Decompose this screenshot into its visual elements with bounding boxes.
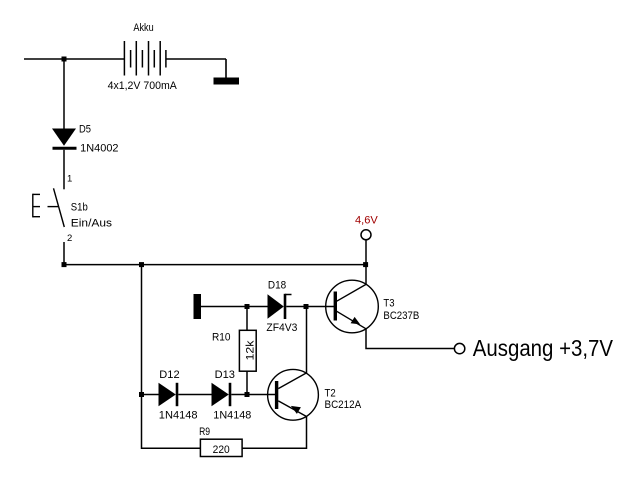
label R10 bbox=[212, 332, 231, 344]
label Akku bbox=[133, 22, 153, 34]
svg-text:T2: T2 bbox=[325, 387, 336, 399]
node 4,6V terminal bbox=[355, 215, 379, 240]
svg-text:T3: T3 bbox=[383, 298, 394, 310]
svg-text:4x1,2V 700mA: 4x1,2V 700mA bbox=[108, 80, 178, 92]
svg-text:D18: D18 bbox=[268, 280, 286, 292]
wire left junction to D12 bbox=[142, 394, 159, 396]
svg-text:1N4148: 1N4148 bbox=[213, 410, 251, 422]
diode D12 bbox=[159, 383, 178, 406]
wire battery to ground bbox=[166, 58, 226, 60]
wire top-left stub to battery bbox=[24, 58, 124, 60]
label R9 bbox=[199, 426, 210, 438]
label Ausgang +3,7V bbox=[473, 335, 614, 361]
svg-text:1N4148: 1N4148 bbox=[159, 410, 198, 422]
ground bbox=[214, 59, 240, 85]
pin 1 label bbox=[67, 173, 72, 184]
wire terminal to bus bbox=[365, 240, 367, 265]
wire junction down to D5 bbox=[63, 59, 65, 129]
zener diode D18 bbox=[268, 294, 292, 319]
wire T2 emitter down and left to R9 bbox=[243, 416, 307, 448]
wire R10 bottom to D13 junction bbox=[246, 371, 248, 395]
diode D13 bbox=[212, 383, 231, 406]
svg-text:D13: D13 bbox=[215, 369, 235, 381]
wire T3 emitter down and right to output bbox=[366, 329, 454, 349]
wire junction down to R10 top bbox=[246, 307, 248, 331]
svg-text:R9: R9 bbox=[199, 426, 210, 438]
label T3 bbox=[383, 298, 394, 310]
transistor T3 bbox=[326, 280, 379, 333]
resistor R10 bbox=[239, 330, 256, 371]
transistor T2 bbox=[268, 369, 319, 420]
value label 1N4148 first bbox=[159, 410, 198, 422]
svg-text:S1b: S1b bbox=[71, 201, 88, 213]
node junction bus right bbox=[363, 262, 368, 267]
value label 1N4148 second bbox=[213, 410, 251, 422]
svg-text:12k: 12k bbox=[244, 340, 256, 361]
svg-text:Akku: Akku bbox=[133, 22, 153, 34]
wire switch pin 2 down to bus bbox=[63, 242, 65, 265]
label D13 bbox=[215, 369, 235, 381]
label D12 bbox=[159, 369, 179, 381]
pin 2 label bbox=[67, 233, 72, 244]
svg-text:R10: R10 bbox=[212, 332, 231, 344]
wire junction down to T2 collector bbox=[306, 307, 308, 374]
value label 4x1,2V 700mA bbox=[108, 80, 178, 92]
svg-text:1: 1 bbox=[67, 173, 72, 184]
svg-text:220: 220 bbox=[213, 444, 230, 456]
svg-text:BC237B: BC237B bbox=[383, 310, 419, 322]
value label ZF4V3 bbox=[266, 322, 297, 334]
value label BC237B bbox=[383, 310, 419, 322]
wire D12 to D13 bbox=[178, 394, 211, 396]
wire D13 to T2 base bbox=[231, 394, 275, 396]
node junction top above D5 bbox=[62, 57, 67, 62]
node junction at D12 level bbox=[139, 392, 144, 397]
node junction above R10 bbox=[245, 304, 250, 309]
svg-text:BC212A: BC212A bbox=[325, 399, 363, 411]
wire bar to D18 bbox=[201, 306, 268, 308]
label T2 bbox=[325, 387, 336, 399]
label S1b bbox=[71, 201, 88, 213]
wire D5 to switch pin 1 bbox=[63, 150, 65, 190]
svg-text:2: 2 bbox=[67, 233, 72, 244]
node junction at T3 base branch bbox=[304, 304, 309, 309]
switch S1b bbox=[33, 188, 65, 227]
label D5 bbox=[79, 123, 91, 135]
svg-text:D5: D5 bbox=[79, 123, 91, 135]
resistor R9 bbox=[200, 439, 242, 456]
svg-text:D12: D12 bbox=[159, 369, 179, 381]
svg-text:4,6V: 4,6V bbox=[355, 215, 379, 227]
value label 1N4002 bbox=[80, 142, 118, 154]
value label Ein/Aus bbox=[71, 218, 112, 230]
svg-text:1N4002: 1N4002 bbox=[80, 142, 118, 154]
node junction bus middle bbox=[139, 262, 144, 267]
wire main horizontal bus bbox=[64, 264, 366, 266]
svg-text:Ein/Aus: Ein/Aus bbox=[71, 218, 112, 230]
svg-text:Ausgang +3,7V: Ausgang +3,7V bbox=[473, 335, 614, 361]
value label BC212A bbox=[325, 399, 363, 411]
output terminal bbox=[454, 343, 464, 353]
battery B1 Akku 4x1,2V 700mA bbox=[124, 41, 165, 76]
svg-text:ZF4V3: ZF4V3 bbox=[266, 322, 297, 334]
wire bus down left branch to D12 level bbox=[141, 265, 143, 395]
wire left branch down and right to R9 bbox=[142, 395, 201, 449]
node junction below R10 bbox=[245, 392, 250, 397]
terminal bar bbox=[194, 294, 202, 319]
diode D5 bbox=[52, 129, 77, 149]
wire T3 collector up to bus bbox=[365, 265, 367, 285]
label D18 bbox=[268, 280, 286, 292]
node junction bus left bbox=[62, 262, 67, 267]
wire D18 to T3 base bbox=[286, 306, 334, 308]
